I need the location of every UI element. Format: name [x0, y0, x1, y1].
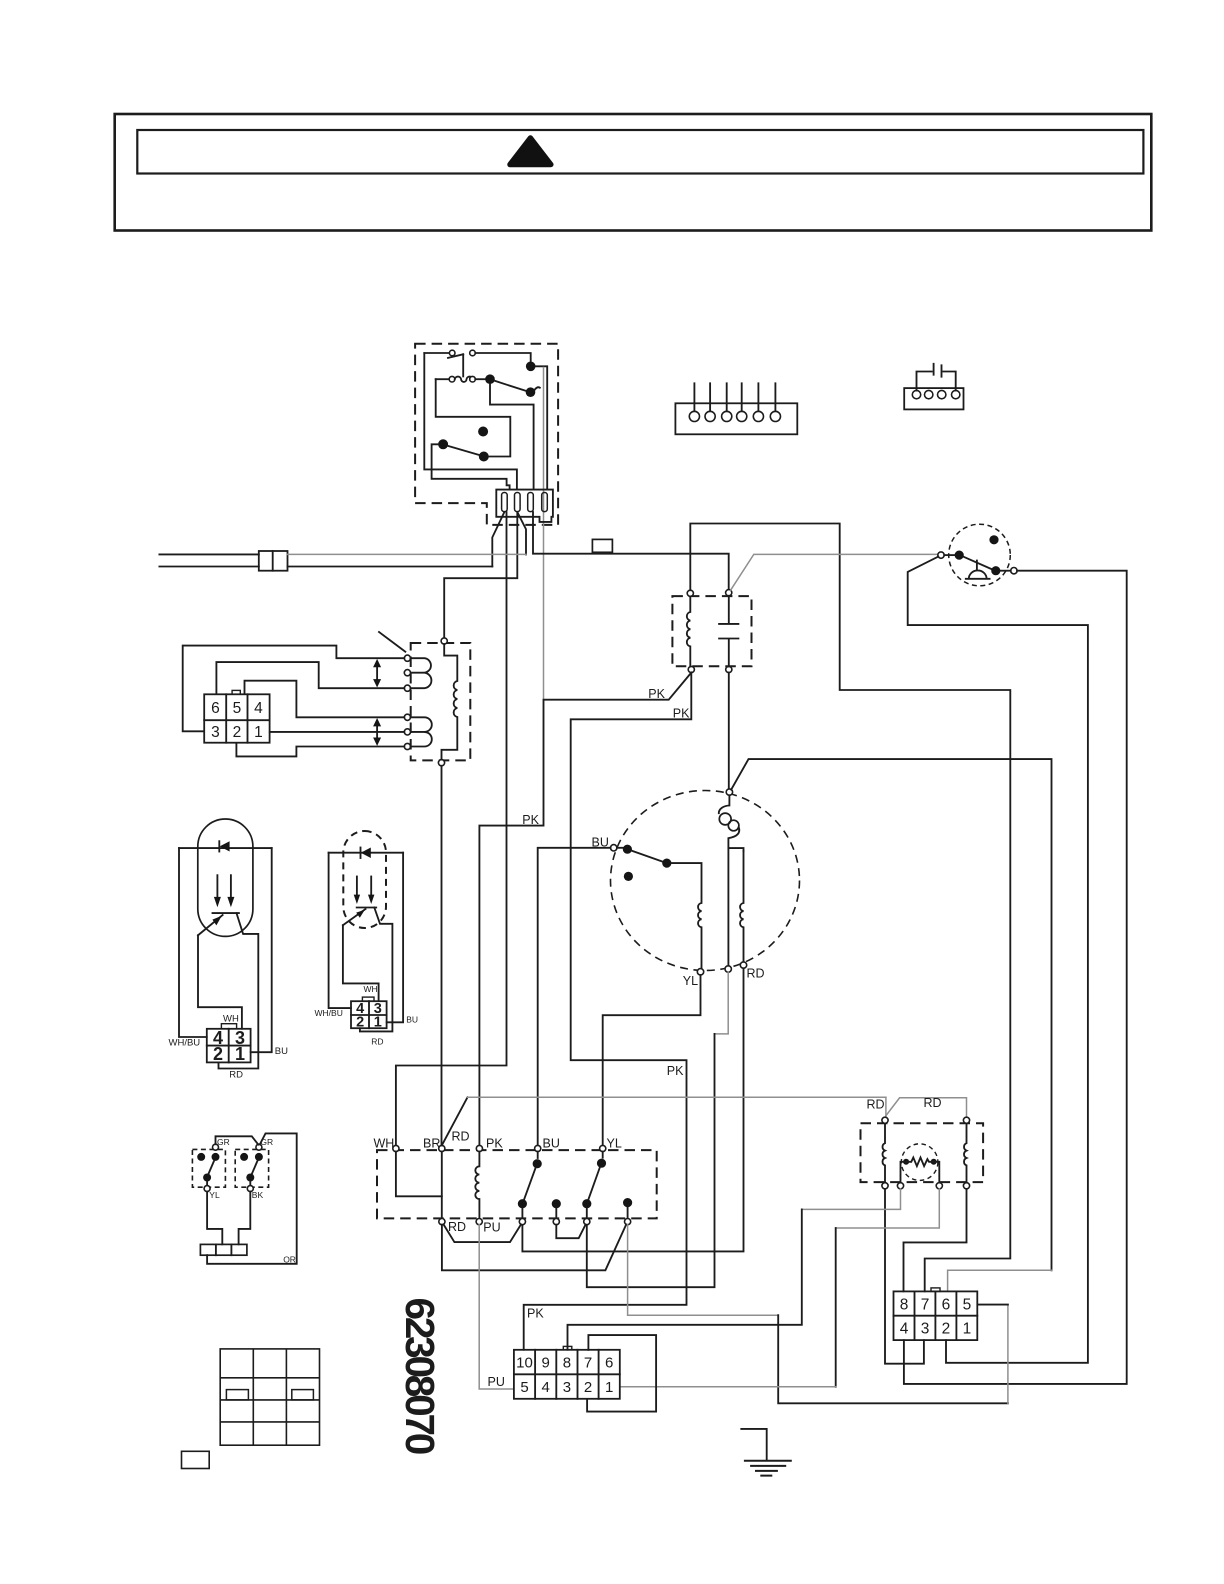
switch S2 contact b: [470, 376, 476, 382]
opto1 emitter with arrow: [198, 915, 223, 935]
relay coil winding: [687, 596, 690, 666]
terminal block circles: [689, 411, 780, 421]
switch S3 throw contact: [479, 452, 489, 462]
svg-text:BU: BU: [406, 1014, 418, 1024]
svg-text:5: 5: [963, 1296, 972, 1313]
svg-text:BK: BK: [252, 1190, 264, 1200]
timer internal BR to RD: [441, 1152, 443, 1219]
svg-text:5: 5: [233, 700, 242, 717]
fuse box on wire: [592, 539, 612, 552]
opto1 phototransistor base bar: [213, 912, 239, 914]
wire pin3 to capacitor top node: [533, 512, 729, 590]
svg-text:RD: RD: [924, 1096, 942, 1110]
capacitor C1 plates: [934, 364, 942, 377]
opto1 LED diode: [218, 841, 220, 851]
opto sensor 2 dashed capsule: [343, 831, 386, 928]
power cord line L upper: [159, 553, 258, 555]
wire pin1 down to timer WH: [396, 512, 507, 1145]
wire capacitor node diagonal to bell feed: [731, 554, 938, 590]
timer terminal WH: [393, 1145, 399, 1151]
opto1 connector labels: [213, 1028, 245, 1064]
connector 8pin grid: [894, 1291, 978, 1340]
buzzer blade: [964, 557, 992, 569]
wire tap5 to 6pin cell1: [270, 731, 405, 733]
lid switch 1 top terminal: [213, 1144, 219, 1150]
connector 8pin key tab: [931, 1288, 940, 1292]
switch S2 wire left: [436, 378, 450, 380]
timer bottom terminal T4: [553, 1219, 559, 1225]
wire pin2 down to transformer primary: [444, 512, 517, 638]
buzzer stub b: [1001, 570, 1011, 572]
svg-text:WH: WH: [374, 1137, 395, 1151]
wire transformer bottom to timer BR: [441, 766, 443, 1146]
legend grid 3x4: [220, 1349, 319, 1445]
svg-text:WH: WH: [364, 984, 378, 994]
svg-text:BU: BU: [275, 1046, 288, 1057]
svg-text:5: 5: [520, 1379, 528, 1396]
motor switch blade: [632, 851, 663, 862]
wire 10pin pin7 to pin2 loop: [587, 1335, 656, 1412]
motor YL terminal: [697, 969, 703, 975]
svg-text:6: 6: [211, 700, 220, 717]
opto1 emitter wire to pin3: [198, 935, 242, 1028]
switch assembly connector body: [496, 490, 553, 522]
wire BU terminal to timer BU: [538, 848, 611, 1146]
svg-text:2: 2: [584, 1379, 592, 1396]
opto2 emitter with arrow: [343, 909, 366, 925]
timer terminal BR: [439, 1145, 445, 1151]
terminal strip 3 cell: [200, 1244, 247, 1255]
wire S1 throw to connector pin4: [536, 366, 548, 489]
svg-text:RD: RD: [747, 967, 765, 981]
motor switch contact a: [623, 845, 632, 854]
solenoid bottom node C3: [936, 1183, 942, 1189]
svg-text:BR: BR: [423, 1137, 440, 1151]
wire BR diagonal RD feed: [442, 1097, 468, 1145]
svg-text:WH/BU: WH/BU: [169, 1038, 201, 1049]
transformer secondary winding: [442, 644, 458, 760]
svg-text:10: 10: [516, 1355, 533, 1372]
wire S2 to pivot: [475, 378, 485, 380]
connector slot 4: [542, 493, 548, 512]
switch S3 pivot contact: [438, 439, 448, 449]
lid switch 2 top terminal: [256, 1144, 262, 1150]
timer contact T5: [582, 1199, 591, 1208]
wire RD diagonal to right solenoid: [886, 1098, 967, 1117]
svg-text:OR: OR: [283, 1255, 296, 1265]
opto2 LED wire: [329, 852, 404, 854]
opto2 connector body: [351, 1001, 387, 1028]
wire switch2 to terminal strip: [239, 1192, 251, 1245]
svg-text:2: 2: [213, 1044, 223, 1064]
start relay dashed enclosure: [672, 596, 751, 666]
wire RD terminal to timer T3: [522, 968, 743, 1251]
svg-text:3: 3: [921, 1321, 930, 1338]
wire S3 pivot to connector pin1: [432, 444, 510, 489]
opto1 connector key tab: [221, 1024, 236, 1029]
legend small box: [182, 1451, 210, 1468]
svg-text:RD: RD: [371, 1037, 383, 1047]
timer contact stubs: [522, 1207, 627, 1218]
opto1 LED wire: [179, 847, 272, 849]
switch S2 coupling loops: [455, 377, 473, 382]
wire tap4 to 6pin cell5: [245, 681, 405, 718]
switch S2 contact a: [449, 376, 455, 382]
svg-text:1: 1: [374, 1014, 382, 1030]
svg-text:8: 8: [563, 1355, 571, 1372]
relay capacitor bottom node: [726, 666, 732, 672]
wire tap3 to 6pin cell6: [216, 662, 404, 694]
timer bottom terminal PU: [476, 1219, 482, 1225]
timer bottom terminal T5: [584, 1219, 590, 1225]
lid switch 2 contacts: [240, 1153, 248, 1161]
opto2 LED diode: [360, 848, 362, 859]
opto sensor 1 capsule: [198, 819, 253, 936]
relay capacitor top node: [726, 590, 732, 596]
motor start winding (left): [672, 863, 702, 969]
wire C3 to 10pin pin1: [836, 1189, 940, 1228]
svg-text:RD: RD: [452, 1130, 470, 1144]
svg-text:62308070: 62308070: [397, 1298, 443, 1454]
wire center terminal to timer T5: [715, 972, 729, 1034]
motor RD terminal: [740, 962, 746, 968]
tap selector arrow lower: [376, 723, 378, 742]
svg-text:2: 2: [356, 1014, 364, 1030]
opto2 connector labels: [356, 1001, 382, 1030]
buzzer left terminal: [938, 552, 944, 558]
wire linking both switch tops: [216, 1136, 259, 1144]
timer link RD to T3: [444, 1224, 522, 1242]
power plug block: [259, 551, 288, 571]
motor switch stub: [617, 847, 623, 849]
push-to-start switch assembly dashed enclosure: [415, 344, 558, 525]
timer contact T3: [518, 1199, 527, 1208]
wire capacitor bottom to motor top: [728, 673, 730, 789]
relay capacitor element: [719, 596, 738, 667]
svg-text:WH/BU: WH/BU: [315, 1008, 343, 1018]
svg-text:PK: PK: [486, 1137, 503, 1151]
legend grid inner tab 1: [226, 1390, 248, 1400]
motor switch lower contact: [624, 872, 633, 881]
opto2 connector grid: [351, 1001, 387, 1028]
timer internal WH link: [396, 1152, 442, 1197]
solenoid right coil: [964, 1123, 966, 1182]
svg-text:RD: RD: [229, 1070, 243, 1081]
timer switch BU contact: [533, 1159, 542, 1168]
timer bottom terminal T3: [519, 1219, 525, 1225]
connector slot 3: [528, 493, 534, 512]
timer bottom terminal T6: [625, 1219, 631, 1225]
opto2 left frame wire to pin4: [329, 853, 351, 1008]
motor BU terminal: [611, 845, 617, 851]
wire S3 throw to S2 left: [436, 379, 511, 456]
relay coil bottom node: [688, 666, 694, 672]
svg-text:PU: PU: [488, 1375, 505, 1389]
svg-text:4: 4: [254, 700, 263, 717]
wire PU to 10pin pin5: [479, 1225, 514, 1389]
wire S1 to throw contact: [475, 353, 530, 361]
svg-text:9: 9: [542, 1355, 550, 1372]
opto1 right frame wire to pin1: [251, 848, 272, 1052]
svg-text:GR: GR: [217, 1137, 230, 1147]
buzzer right terminal: [1011, 568, 1017, 574]
timer contact T6: [623, 1198, 632, 1207]
svg-text:YL: YL: [209, 1190, 220, 1200]
svg-text:7: 7: [921, 1296, 930, 1313]
transformer top node: [441, 638, 447, 644]
connector 10pin key tab: [563, 1346, 572, 1349]
svg-text:PU: PU: [483, 1221, 500, 1235]
svg-text:PK: PK: [527, 1307, 544, 1321]
buzzer inner contact a: [955, 551, 964, 560]
wire motor top diagonal to 8pin pin6: [731, 759, 1051, 1270]
connector 6pin grid lines: [204, 694, 269, 742]
power plug block divider: [272, 551, 274, 571]
opto2 collector wire to pin2: [360, 908, 393, 1032]
buzzer link stub: [944, 554, 954, 556]
warning triangle icon: [510, 138, 551, 165]
wire S1 blade to S2: [462, 354, 464, 376]
connector 8pin labels: [900, 1296, 972, 1337]
wire pin2 to upper power line: [517, 512, 526, 554]
motor center terminal: [725, 966, 731, 972]
transformer primary winding upper: [411, 658, 432, 688]
timer dashed enclosure: [377, 1150, 657, 1218]
opto1 collector wire to pin2: [219, 913, 259, 1068]
power cord line N lower: [159, 566, 258, 568]
svg-text:6: 6: [605, 1355, 613, 1372]
wire S1 left to connector pin2: [424, 353, 517, 489]
svg-text:6: 6: [942, 1296, 951, 1313]
connector slot 1: [502, 493, 508, 512]
opto2 connector key tab: [362, 997, 374, 1001]
wire protector to center terminal: [727, 848, 729, 966]
warning box inner frame: [137, 130, 1143, 174]
switch S1 wire left: [424, 352, 449, 354]
wire tap6 to 6pin cell2: [236, 743, 404, 757]
switch S1 throw contact: [526, 362, 536, 372]
switch S3 upper contact: [478, 427, 488, 437]
wire buzzer left to 8pin pin2: [908, 557, 1088, 1363]
connector 6pin key tab: [232, 690, 240, 694]
wire C2 to 10pin pin8: [802, 1189, 901, 1210]
svg-text:4: 4: [900, 1321, 909, 1338]
timer wire RD to T6: [442, 1225, 626, 1271]
wire C4 to 8pin pin8: [904, 1189, 967, 1291]
timer bottom terminal RD: [439, 1219, 445, 1225]
solenoid left top node: [882, 1117, 888, 1123]
opto2 right frame wire to pin1: [387, 853, 403, 1023]
transformer T1 dashed enclosure: [411, 643, 471, 760]
svg-text:WH: WH: [223, 1014, 239, 1025]
opto1 connector grid: [207, 1029, 251, 1063]
switch S2 blade: [495, 381, 527, 391]
terminal block lead stubs: [694, 383, 775, 411]
timer switch YL contact: [597, 1159, 606, 1168]
svg-text:1: 1: [605, 1379, 613, 1396]
motor M1 dashed circle: [611, 791, 800, 971]
motor top terminal: [726, 789, 732, 795]
lid switch 1 bottom terminal: [206, 1182, 208, 1186]
lid switch 2 bottom terminal: [249, 1182, 251, 1186]
connector slot 2: [515, 493, 521, 512]
wire pin1 to lower power line: [492, 512, 504, 567]
transformer primary taps upper: [404, 655, 410, 661]
wire switch1 to terminal strip: [207, 1192, 222, 1245]
solenoid right top node: [963, 1117, 969, 1123]
wire C1 to 8pin pin3: [885, 1189, 924, 1364]
switch S2 pivot contact: [485, 374, 495, 384]
timer terminal YL: [600, 1145, 606, 1151]
lid switch 2 blade: [252, 1161, 258, 1174]
connector 6pin labels: [211, 700, 263, 741]
lid switch 1 dashed box: [192, 1149, 225, 1187]
connector 10pin body: [514, 1350, 620, 1399]
pointer line to transformer: [379, 632, 405, 652]
switch S1 contact b: [470, 350, 476, 356]
wire RD drop to left solenoid: [885, 1097, 887, 1117]
motor run winding (right): [740, 851, 743, 962]
svg-text:RD: RD: [448, 1220, 466, 1234]
solenoid left coil: [883, 1123, 885, 1182]
svg-text:PK: PK: [667, 1064, 684, 1078]
tap selector arrow upper: [376, 664, 378, 684]
svg-text:PK: PK: [673, 707, 690, 721]
svg-text:RD: RD: [867, 1098, 885, 1112]
relay coil top node: [687, 590, 693, 596]
opto1 light ray arrows: [216, 875, 218, 899]
legend grid inner tab 2: [292, 1390, 314, 1400]
buzzer inner contact b: [991, 566, 1000, 575]
opto2 light ray arrows: [356, 877, 358, 897]
opto1 connector body: [207, 1029, 251, 1063]
motor switch contact b: [662, 859, 671, 868]
buzzer upper contact: [989, 535, 998, 544]
wire S2 pivot to connector pin3: [490, 384, 534, 490]
wire tap1 to 6pin cell3: [183, 646, 405, 732]
solenoid bottom node C1: [882, 1183, 888, 1189]
svg-text:3: 3: [563, 1379, 571, 1396]
solenoid bottom node C4: [963, 1183, 969, 1189]
switch S1 contact a: [449, 350, 455, 356]
connector 6pin body: [204, 694, 269, 742]
svg-text:7: 7: [584, 1355, 592, 1372]
timer terminal BU: [535, 1145, 541, 1151]
wire buzzer right to 8pin pin4: [904, 571, 1127, 1384]
wire relay coil bottom to 10pin pin10: [524, 673, 692, 1350]
wire relay coil bottom to timer PK: [479, 673, 691, 1146]
thermal fuse left lead: [901, 1162, 907, 1183]
svg-text:4: 4: [542, 1379, 550, 1396]
svg-text:8: 8: [900, 1296, 909, 1313]
thermal fuse right lead: [934, 1162, 940, 1183]
timer link T4 to T5: [556, 1225, 585, 1239]
svg-text:1: 1: [235, 1044, 245, 1064]
svg-text:3: 3: [211, 724, 220, 741]
wire T6 to 8pin pin5: [628, 1225, 779, 1316]
wire relay coil top to 8pin pin7: [690, 524, 1010, 1292]
wire PK trunk from switch area down: [543, 368, 545, 700]
timer contact T4: [552, 1199, 561, 1208]
svg-text:1: 1: [254, 724, 263, 741]
svg-text:YL: YL: [607, 1137, 622, 1151]
ground wire: [741, 1429, 766, 1461]
wire plug to switch pin1 (lower): [288, 566, 493, 568]
transformer bottom node: [438, 760, 444, 766]
wire S2 throw hook: [535, 387, 540, 389]
opto2 emitter wire to pin3: [343, 925, 379, 1001]
svg-text:BU: BU: [543, 1137, 560, 1151]
opto1 left frame wire to pin4: [179, 848, 207, 1037]
wire 8pin pin6 riser: [948, 1270, 1052, 1291]
lid switch 2 throw contact: [246, 1174, 254, 1182]
timer terminal PK: [476, 1145, 482, 1151]
connector 8pin body: [894, 1291, 978, 1340]
thermal fuse dashed circle: [901, 1144, 938, 1181]
terminal block body (6 way): [675, 403, 797, 434]
thermal fuse resistor element: [903, 1159, 909, 1165]
switch S2 throw contact: [526, 387, 536, 397]
buzzer switch dashed circle: [949, 524, 1011, 586]
interference capacitor connector circles: [912, 390, 960, 398]
lid switch 1 throw contact: [203, 1174, 211, 1182]
switch S3 blade: [448, 446, 479, 455]
wire OR loop: [207, 1133, 297, 1263]
capacitor C1 leads: [917, 372, 956, 391]
wire RD line to dispenser solenoids: [468, 1096, 886, 1098]
motor thermal protector: [719, 795, 730, 813]
connector 10pin labels: [516, 1355, 613, 1396]
lid switch 1 blade: [209, 1161, 215, 1174]
solenoid bottom node C2: [897, 1183, 903, 1189]
lid switch 2 dashed box: [235, 1149, 268, 1187]
interference capacitor connector body: [904, 388, 963, 409]
transformer primary winding lower: [411, 717, 432, 746]
warning box outer frame: [115, 114, 1152, 231]
timer motor coil: [475, 1152, 479, 1219]
buzzer bell symbol: [966, 561, 990, 579]
switch S1 blade: [448, 354, 463, 358]
svg-text:YL: YL: [683, 974, 698, 988]
wire plug to switch pin2 (upper): [288, 553, 527, 555]
connector 10pin grid: [514, 1350, 620, 1399]
svg-text:PK: PK: [648, 687, 665, 701]
timer switch YL blade: [588, 1168, 599, 1200]
svg-text:2: 2: [233, 724, 242, 741]
opto2 phototransistor base bar: [357, 907, 377, 909]
dispenser solenoid dashed enclosure: [861, 1123, 984, 1182]
wire YL terminal to timer YL: [603, 975, 701, 1145]
lid switch 1 contacts: [197, 1153, 205, 1161]
transformer primary taps lower: [404, 714, 410, 720]
timer switch BU blade: [524, 1168, 535, 1200]
svg-text:2: 2: [942, 1321, 951, 1338]
svg-text:PK: PK: [522, 813, 539, 827]
ground symbol: [744, 1461, 792, 1476]
svg-text:1: 1: [963, 1321, 972, 1338]
